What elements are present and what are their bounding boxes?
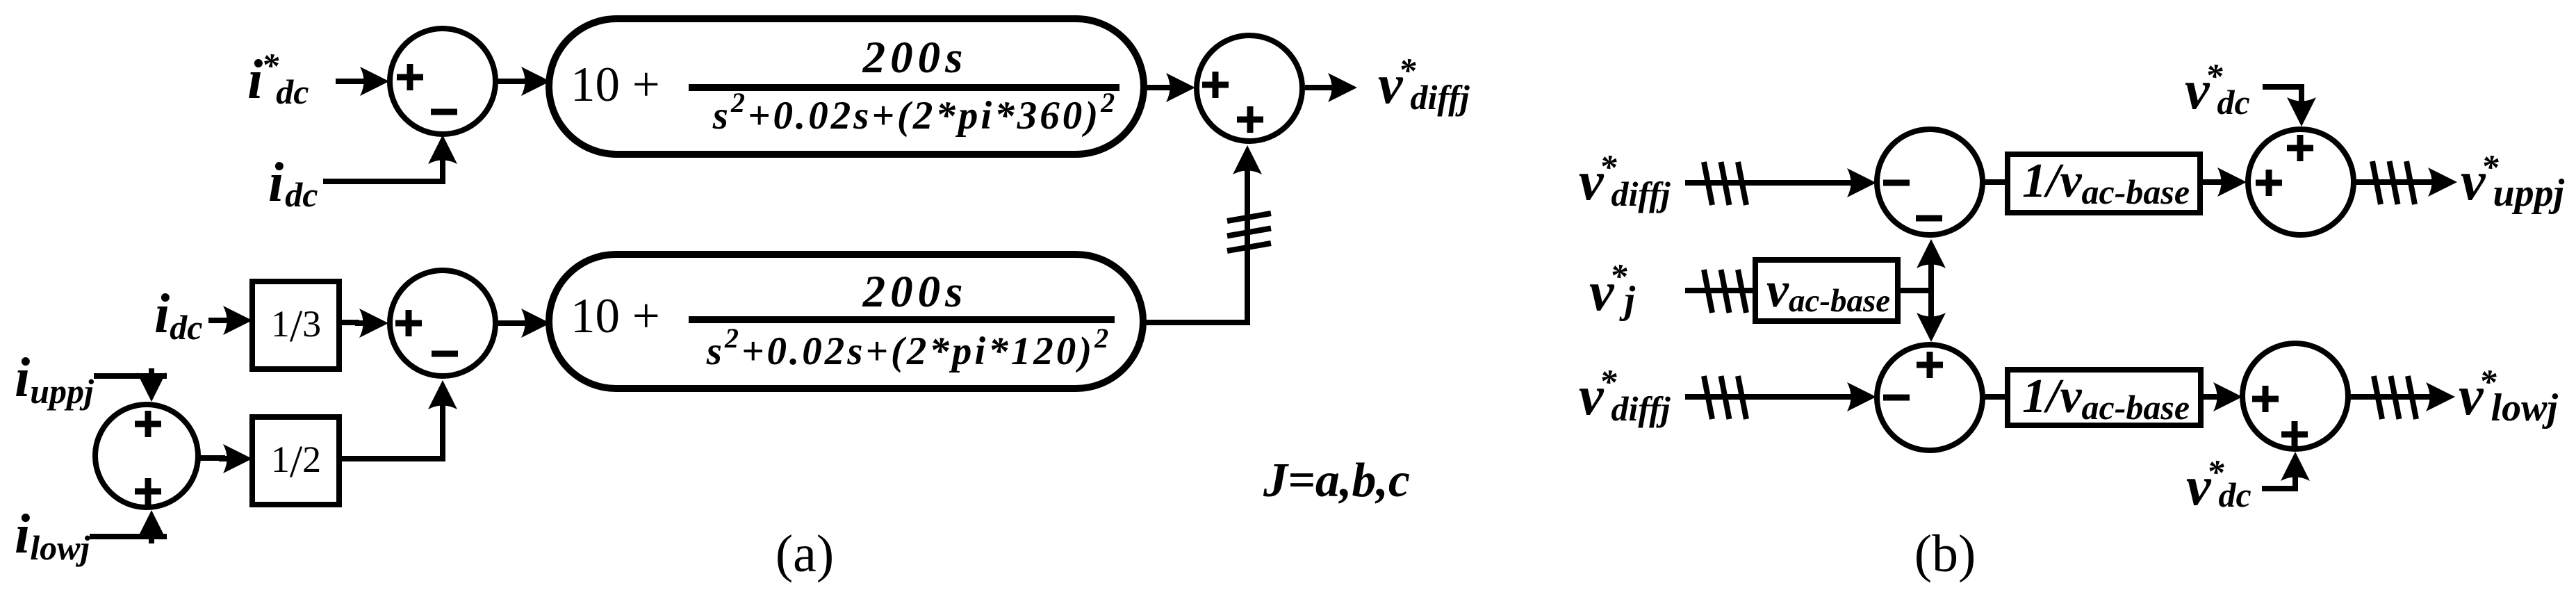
svg-text:200s: 200s: [862, 267, 968, 317]
svg-text:1/3: 1/3: [271, 301, 321, 352]
svg-text:1/2: 1/2: [271, 436, 321, 487]
svg-text:(a): (a): [776, 525, 834, 583]
svg-text:200s: 200s: [862, 33, 968, 83]
svg-text:s2+0.02s+(2*pi*360)2: s2+0.02s+(2*pi*360)2: [712, 87, 1117, 138]
svg-text:s2+0.02s+(2*pi*120)2: s2+0.02s+(2*pi*120)2: [706, 322, 1111, 373]
svg-text:J=a,b,c: J=a,b,c: [1263, 454, 1410, 507]
svg-text:(b): (b): [1914, 525, 1976, 583]
svg-text:10 +: 10 +: [571, 58, 660, 112]
svg-text:10 +: 10 +: [571, 289, 660, 343]
